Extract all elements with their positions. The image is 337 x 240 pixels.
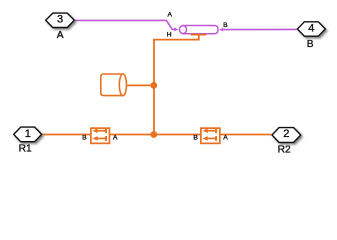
svg-text:A: A	[57, 30, 64, 41]
svg-text:B: B	[82, 134, 87, 141]
svg-text:B: B	[307, 39, 314, 50]
svg-text:A: A	[223, 135, 228, 142]
svg-text:4: 4	[308, 22, 314, 34]
wire A: purple connection from port 3 to pipe port A	[75, 20, 174, 29]
pipe block U1 (two-phase fluid pipe) body	[183, 26, 218, 34]
svg-text:H: H	[167, 32, 172, 39]
port 3 hexagon	[46, 13, 76, 29]
wire B: purple connection from port 4 to pipe port B	[224, 28, 297, 30]
svg-text:B: B	[223, 22, 228, 29]
svg-text:1: 1	[25, 128, 31, 140]
thermal mass right end cap	[119, 74, 126, 96]
arrowhead into pipe port B	[219, 28, 223, 32]
wire: conduction block 2 to port 2	[221, 134, 272, 136]
junction dot (thermal bus upper)	[150, 82, 157, 89]
wire: thermal mass to junction	[127, 84, 154, 86]
port 2 hexagon	[272, 128, 302, 145]
conductive heat transfer block Q1 outline	[91, 128, 110, 143]
svg-text:R2: R2	[278, 144, 291, 155]
port 4 hexagon	[297, 22, 327, 38]
thermal mass block body	[101, 74, 123, 96]
svg-text:3: 3	[57, 13, 63, 25]
wire: conduction block 1 to conduction block 2	[110, 134, 200, 136]
svg-text:R1: R1	[19, 144, 32, 155]
Q1 upper arrow	[93, 128, 108, 133]
wire H: orange from pipe port H down and left to vertical bus	[154, 35, 199, 134]
svg-text:A: A	[113, 134, 118, 141]
Q1 lower arrow	[93, 136, 108, 141]
svg-text:A: A	[167, 12, 172, 19]
svg-text:2: 2	[283, 128, 289, 140]
conductive heat transfer block Q2 outline	[201, 128, 220, 143]
pipe port H tab (orange)	[191, 34, 207, 36]
junction dot (thermal bus lower)	[150, 131, 157, 138]
arrowhead into pipe port A	[174, 28, 178, 32]
wire: port 1 to conduction block 1	[42, 134, 90, 136]
svg-text:B: B	[193, 135, 198, 142]
port 1 hexagon	[14, 127, 44, 143]
pipe block U1 left end cap	[180, 26, 187, 34]
Q2 upper arrow	[203, 128, 218, 133]
Q2 lower arrow	[203, 136, 218, 141]
